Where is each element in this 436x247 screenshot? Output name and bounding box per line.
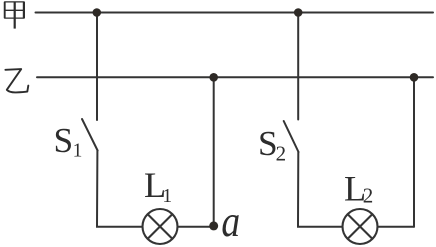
lamp L2 X	[348, 214, 373, 239]
junction dot 乙-left (top of node-a riser)	[209, 73, 218, 82]
wire lamp L2 to right riser	[378, 226, 414, 228]
svg-text:1: 1	[73, 141, 83, 162]
switch S1 blade	[82, 119, 98, 151]
lamp L1 circle	[143, 209, 178, 244]
wire below S1 down to bottom	[97, 151, 142, 227]
svg-text:S: S	[54, 121, 74, 160]
switch S2 blade	[284, 121, 299, 152]
wire right riser up to 乙 bus	[413, 77, 415, 227]
wire below S2 down to bottom	[298, 152, 342, 227]
lamp L2 circle	[343, 209, 378, 244]
wire 甲 bus (top horizontal)	[36, 12, 434, 14]
junction dot 乙-right (top of right riser)	[410, 73, 419, 82]
label 乙 (drawn glyph)	[5, 69, 28, 92]
svg-text:a: a	[221, 196, 240, 246]
label 甲 (drawn glyph)	[4, 2, 24, 29]
wire right branch vertical from 甲 bus to switch S2	[297, 13, 299, 120]
wire 乙 bus (second horizontal)	[37, 76, 433, 78]
svg-text:2: 2	[363, 184, 374, 208]
wire left branch vertical from 甲 bus to switch S1	[96, 13, 98, 121]
svg-text:2: 2	[276, 141, 287, 165]
lamp L1 X	[148, 214, 173, 239]
junction dot 甲-right (top of right branch)	[294, 8, 303, 17]
wire lamp L1 to node a	[178, 226, 214, 228]
svg-text:1: 1	[162, 186, 172, 207]
junction dot 甲-left (top of left branch)	[93, 8, 102, 17]
node a dot	[209, 221, 218, 230]
wire node a up to 乙 bus	[213, 77, 215, 226]
